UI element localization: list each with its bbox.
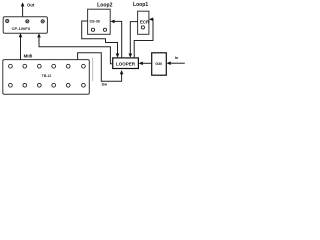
svg-text:CP-100FX: CP-100FX [12, 26, 31, 31]
box TB-12 [3, 60, 90, 95]
jack circle ECR [141, 26, 144, 29]
label ECR [140, 20, 150, 25]
svg-text:LOOPER: LOOPER [116, 61, 136, 66]
box CP-100FX [3, 17, 47, 33]
wire Loop1 send LOOPER to ECR input arrow [134, 18, 153, 58]
svg-text:SS-36: SS-36 [89, 19, 100, 23]
svg-text:ECR: ECR [140, 20, 150, 25]
wire Out arrow from CP-100FX top [21, 2, 25, 17]
box LOOPER [113, 58, 139, 69]
svg-text:In: In [175, 55, 179, 60]
box SS-36 [88, 9, 111, 34]
wire Sw TB-12 to LOOPER bottom with up arrow [78, 53, 124, 81]
label Loop1 [133, 2, 148, 8]
label CP-100FX [12, 26, 31, 31]
box G30 [152, 53, 167, 75]
svg-text:Loop2: Loop2 [97, 2, 112, 8]
label Loop2 [97, 2, 112, 8]
wire G30 to LOOPER with left arrow [139, 62, 152, 66]
wire Loop1 return ECR output to LOOPER top arrow [129, 22, 138, 58]
screw circle CP middle [26, 20, 29, 23]
label In [175, 55, 179, 60]
screw circle CP left [6, 19, 9, 22]
wire LOOPER out to CP-100FX input with up arrow [37, 33, 112, 64]
label TB-12 [42, 74, 52, 78]
svg-text:TB-12: TB-12 [42, 74, 52, 78]
jack circles TB-12 bottom row [9, 83, 86, 87]
wire Loop2 return SS-36 output to LOOPER top arrow [82, 21, 120, 58]
screw circle CP right [41, 20, 44, 23]
label Out [27, 2, 35, 7]
wire In to G30 with left arrow [167, 61, 185, 65]
wire Loop2 send LOOPER to SS-36 input arrow [110, 20, 121, 58]
label SS-36 [89, 19, 100, 23]
svg-text:G30: G30 [155, 62, 162, 66]
jack circles SS-36 [91, 28, 106, 31]
wire Midi TB-12 to CP-100FX with up arrow [19, 33, 23, 60]
svg-text:Out: Out [27, 2, 35, 7]
label Sw [102, 83, 108, 87]
box ECR [138, 11, 149, 34]
label Midi [24, 54, 33, 59]
label LOOPER [116, 61, 136, 66]
jack circles TB-12 top row [9, 64, 86, 68]
svg-text:Loop1: Loop1 [133, 2, 148, 8]
label G30 [155, 62, 162, 66]
svg-text:Midi: Midi [24, 54, 33, 59]
svg-text:Sw: Sw [102, 83, 108, 87]
wire faint vertical near TB-12 right edge [92, 58, 94, 82]
